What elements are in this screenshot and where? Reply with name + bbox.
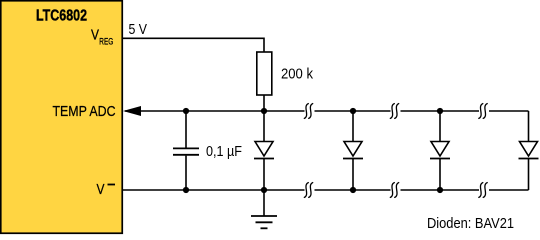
diode D3 — [430, 111, 450, 190]
svg-text:V: V — [91, 28, 99, 44]
break bottom 3 — [479, 183, 487, 198]
node dot R bottom — [261, 108, 267, 114]
break top 3 — [479, 104, 487, 119]
wire — [401, 189, 480, 191]
break bottom 1 — [304, 183, 312, 198]
resistor R 200k — [257, 52, 272, 95]
svg-text:LTC6802: LTC6802 — [36, 8, 87, 25]
arrowhead into TEMP ADC — [123, 106, 141, 116]
node dot cap top — [183, 108, 189, 114]
wire — [315, 110, 391, 112]
break top 2 — [390, 104, 398, 119]
break bottom 2 — [390, 183, 398, 198]
node dot cap bottom — [183, 187, 189, 193]
TEMP ADC bus wire — [125, 110, 305, 112]
svg-text:5 V: 5 V — [129, 22, 148, 38]
diode D4 — [519, 111, 539, 190]
IC block LTC6802 — [1, 1, 123, 234]
capacitor C 0,1uF — [185, 111, 187, 148]
wire — [401, 110, 480, 112]
wire — [489, 110, 529, 112]
node dot D2 top — [350, 108, 356, 114]
svg-text:TEMP ADC: TEMP ADC — [53, 104, 116, 120]
V- bus wire — [123, 189, 305, 191]
break top 1 — [304, 104, 312, 119]
diode D1 — [254, 111, 274, 190]
node dot D3 top — [437, 108, 443, 114]
wire — [315, 189, 391, 191]
wire resistor to TEMP ADC node — [263, 95, 265, 111]
wire VREG to resistor — [123, 38, 264, 52]
svg-text:Dioden: BAV21: Dioden: BAV21 — [427, 216, 514, 232]
wire — [489, 189, 529, 191]
node dot D3 bottom — [437, 187, 443, 193]
svg-text:0,1 µF: 0,1 µF — [206, 144, 242, 160]
node dot D2 bottom — [350, 187, 356, 193]
node dot D1 bottom — [261, 187, 267, 193]
svg-text:V: V — [97, 182, 105, 198]
svg-text:REG: REG — [99, 36, 113, 47]
svg-text:200 k: 200 k — [281, 67, 314, 83]
ground — [251, 190, 277, 228]
diode D2 — [343, 111, 363, 190]
